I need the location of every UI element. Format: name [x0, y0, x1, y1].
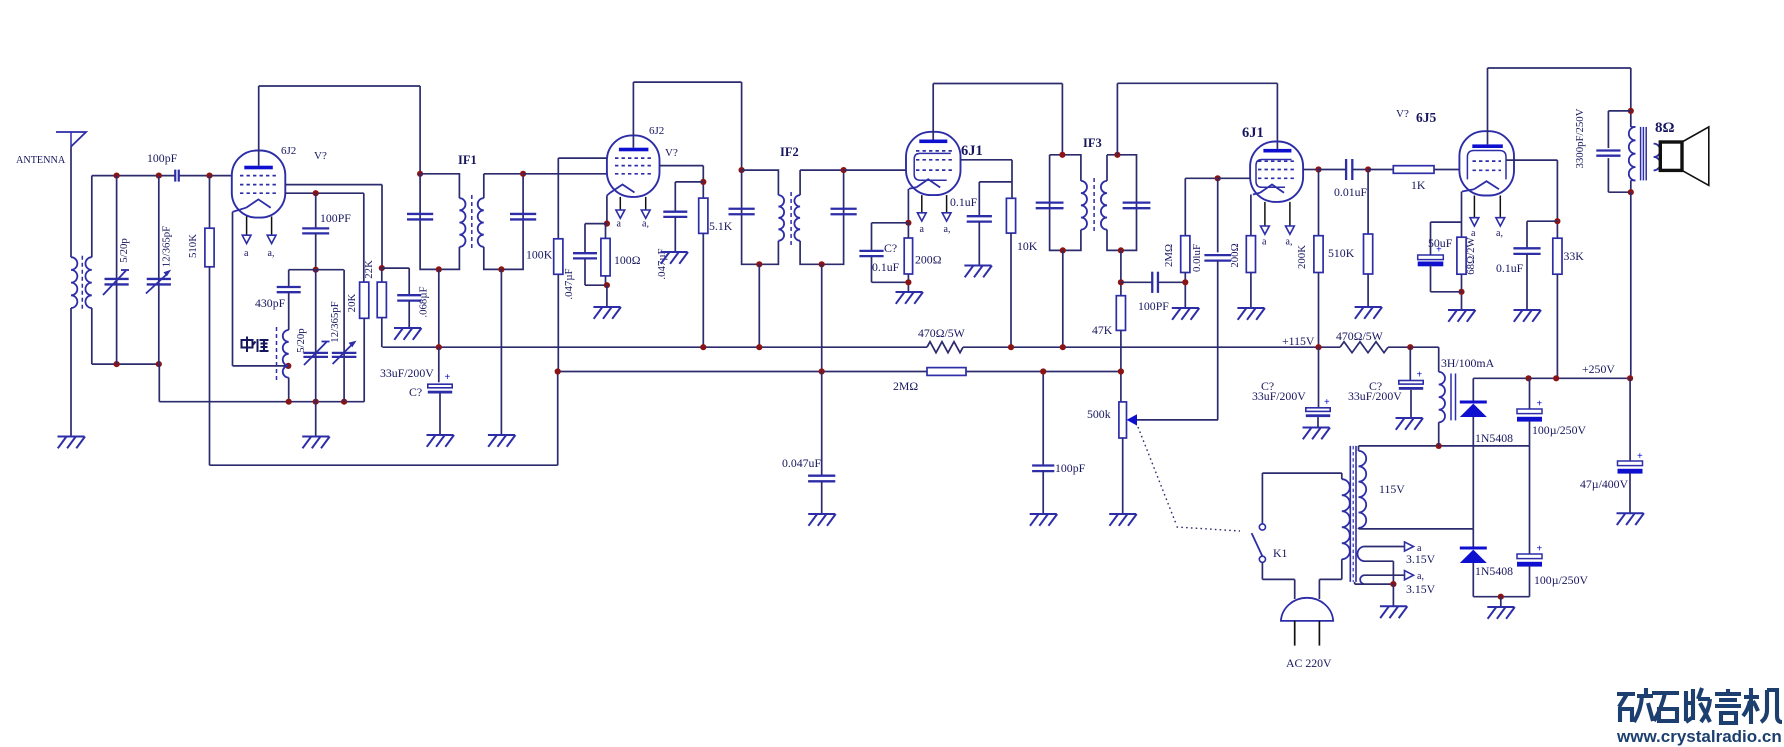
svg-text:+: +	[1537, 544, 1543, 555]
svg-text:33K: 33K	[1564, 249, 1585, 263]
node cathode/50uF	[1458, 289, 1464, 295]
svg-text:+250V: +250V	[1582, 362, 1615, 376]
svg-text:a,: a,	[1286, 237, 1293, 248]
potentiometer 500k	[1119, 402, 1127, 438]
wire heater mid	[1364, 560, 1393, 562]
wire V1 cathode lead	[232, 212, 234, 366]
wire IF1 to V2 grid	[523, 173, 607, 175]
wire IF1 secondary bottom to ground	[500, 269, 502, 435]
svg-text:2MΩ: 2MΩ	[1163, 244, 1175, 267]
node rectifier ground	[1498, 594, 1504, 600]
node 10K on bus	[1008, 344, 1014, 350]
capacitor 0.047uF AVC	[821, 372, 823, 476]
node 0.01uF/1K/510K	[1365, 166, 1371, 172]
node IF1 secondary top	[520, 171, 526, 177]
capacitor 100pF coupling	[174, 170, 176, 182]
wire pot bottom to ground	[1122, 438, 1124, 514]
svg-text:68Ω/2W: 68Ω/2W	[1465, 236, 1477, 274]
choke 3H/100mA	[1438, 347, 1440, 372]
ground (antenna)	[58, 436, 85, 438]
svg-text:500k: 500k	[1087, 407, 1111, 421]
capacitor 100PF IF filter	[1151, 272, 1153, 293]
node 100pF on AVC bus	[1040, 368, 1046, 374]
svg-text:0.1uF: 0.1uF	[872, 260, 900, 274]
IF1 secondary loop	[484, 174, 523, 270]
wire grid rail	[92, 175, 176, 177]
plug AC 220V	[1281, 598, 1333, 621]
svg-text:100pF: 100pF	[147, 151, 178, 165]
svg-text:AC 220V: AC 220V	[1286, 656, 1332, 670]
svg-text:IF1: IF1	[458, 153, 477, 167]
wire heater bottom	[1355, 583, 1394, 585]
capacitor C? 33uF/200V first	[1318, 347, 1320, 407]
node rail dots	[114, 173, 120, 179]
node bus IF3	[1060, 344, 1066, 350]
ground (100pF)	[1030, 513, 1057, 515]
node primary bottom	[1628, 189, 1634, 195]
wire V1 plate lead	[258, 86, 260, 166]
svg-text:470Ω/5W: 470Ω/5W	[918, 326, 966, 340]
wire V1 g3 to 20K	[285, 192, 364, 194]
wire to .047uF screen bypass	[675, 181, 703, 183]
svg-text:a,: a,	[268, 248, 275, 259]
transformer core (antenna coil)	[81, 256, 83, 311]
svg-text:50uF: 50uF	[1428, 236, 1453, 250]
ground (0.047uF)	[808, 513, 835, 515]
node IF1 secondary bottom	[498, 266, 504, 272]
svg-text:470Ω/5W: 470Ω/5W	[1336, 329, 1384, 343]
wire antenna tank bottom	[92, 363, 159, 365]
tube V3 cathode	[916, 179, 940, 187]
svg-text:0.1uF: 0.1uF	[950, 195, 978, 209]
resistor 33K	[1553, 238, 1562, 274]
svg-text:+: +	[1417, 370, 1423, 381]
wire to +250V	[1630, 192, 1632, 378]
resistor 100R cathode	[601, 238, 610, 276]
output transformer core	[1640, 127, 1642, 180]
node osc tank bottom dots	[286, 399, 292, 405]
wire secondary top to grid rail	[91, 176, 93, 258]
choke core	[1450, 374, 1452, 421]
svg-text:+: +	[1537, 399, 1543, 410]
variable capacitor 12/365pF	[158, 176, 160, 365]
capacitor 0.1uF screen bypass	[979, 181, 1012, 183]
wire secondary bottom	[1358, 528, 1360, 529]
wire V4 cathode lead	[1250, 195, 1252, 236]
svg-text:3.15V: 3.15V	[1406, 552, 1436, 566]
capacitor .047uF screen	[663, 211, 687, 213]
tube V1 cathode	[246, 199, 271, 207]
svg-text:5/20p: 5/20p	[295, 328, 307, 353]
variable capacitor 5/20p osc	[315, 270, 317, 402]
svg-text:V?: V?	[665, 147, 678, 159]
inductor IF3 primary	[1081, 181, 1087, 230]
capacitor C? 0.1uF cathode	[872, 222, 909, 224]
tube V5 inner box	[1467, 151, 1506, 180]
svg-text:100µ/250V: 100µ/250V	[1532, 423, 1586, 437]
capacitor 100uF/250V upper	[1529, 378, 1531, 409]
wire +250V rail	[1473, 377, 1630, 379]
svg-text:10K: 10K	[1017, 239, 1038, 253]
svg-text:C?: C?	[884, 241, 897, 255]
node 5.1K on bus	[700, 344, 706, 350]
svg-text:47K: 47K	[1092, 323, 1113, 337]
wire to ground	[606, 285, 608, 307]
label zhongzhen oscillator coil	[242, 337, 269, 353]
tube V1 heater pins	[246, 217, 248, 236]
capacitor 0.01uF interstage	[1319, 169, 1346, 171]
wire primary top	[1341, 473, 1343, 479]
svg-text:33uF/200V: 33uF/200V	[1252, 389, 1306, 403]
svg-text:200K: 200K	[1296, 245, 1308, 269]
IF2 primary loop	[742, 170, 779, 195]
ground (0.1uF V5)	[1514, 309, 1541, 311]
svg-text:6J1: 6J1	[961, 143, 983, 159]
resistor 200K	[1318, 170, 1320, 236]
wire osc tank top	[289, 269, 344, 271]
inductor output transformer primary	[1629, 127, 1636, 181]
svg-text:ANTENNA: ANTENNA	[16, 155, 66, 166]
ground (V4 cathode)	[1237, 307, 1264, 309]
resistor 22K	[381, 268, 383, 282]
mechanical link dotted	[1138, 427, 1177, 525]
node 100K bottom on AVC bus	[555, 368, 561, 374]
svg-text:5.1K: 5.1K	[709, 219, 733, 233]
oscillator coil core	[276, 327, 278, 381]
wire V5 cathode lead	[1461, 192, 1463, 238]
svg-text:430pF: 430pF	[255, 296, 286, 310]
IF1 core	[471, 195, 473, 250]
node V2 cathode	[604, 221, 610, 227]
tube V5 cathode	[1474, 181, 1499, 189]
capacitor IF3 secondary	[1123, 201, 1151, 203]
wire antenna to ground	[70, 308, 72, 437]
wire secondary top (midpoint)	[1358, 446, 1360, 451]
capacitor 3300pF/250V	[1608, 110, 1630, 112]
inductor heater winding	[1357, 547, 1364, 562]
wire heater tap a	[1364, 546, 1405, 548]
wire V1 plate supply rail	[259, 85, 420, 87]
tube V4 inner bracket	[1256, 160, 1292, 188]
node 2M bottom	[1182, 279, 1188, 285]
tube V3 heater pins	[921, 195, 923, 213]
node cathode bottom	[604, 282, 610, 288]
IF2 core	[790, 192, 792, 245]
resistor 200R V4 cathode	[1246, 236, 1255, 273]
IF2 secondary loop	[800, 170, 844, 264]
resistor 2M grid	[1184, 178, 1186, 235]
svg-text:+: +	[1324, 397, 1330, 408]
capacitor C? 33uF/200V	[438, 347, 440, 382]
capacitor IF1 primary	[407, 213, 433, 215]
svg-text:1K: 1K	[1411, 178, 1426, 192]
tube V2 cathode	[611, 185, 635, 193]
node IF2 top left	[739, 167, 745, 173]
svg-text:22K: 22K	[363, 260, 375, 279]
svg-text:100PF: 100PF	[1138, 299, 1169, 313]
node 100PF tap	[313, 190, 319, 196]
svg-text:3300pF/250V: 3300pF/250V	[1574, 108, 1586, 168]
wire V3 g2 right	[961, 159, 1013, 161]
wire IF3 primary bottom to bus	[1062, 250, 1064, 347]
wire V4 g2 right	[1303, 169, 1318, 171]
svg-text:0.1uF: 0.1uF	[1496, 261, 1524, 275]
capacitor 100PF	[315, 193, 317, 228]
svg-text:a: a	[1262, 237, 1267, 248]
svg-text:6J2: 6J2	[281, 145, 296, 157]
svg-text:IF2: IF2	[780, 145, 799, 159]
capacitor 50uF cathode bypass	[1431, 221, 1462, 223]
svg-text:1N5408: 1N5408	[1475, 431, 1513, 445]
wire V3 plate supply rail	[933, 83, 1062, 85]
inductor IF2 primary	[778, 195, 784, 241]
tube V4 grid rows	[1258, 160, 1296, 162]
tube V5 6J5	[1459, 131, 1514, 195]
inductor tuned secondary	[85, 257, 91, 308]
node IF1 primary bottom	[436, 266, 442, 272]
wire V5 plate rail	[1488, 67, 1631, 69]
ground (47uF)	[1617, 512, 1644, 514]
node 47K on AVC bus	[1118, 368, 1124, 374]
capacitor C? 33uF/200V second	[1409, 347, 1411, 380]
capacitor IF2 primary	[729, 208, 755, 210]
node IF3 primary top	[1059, 152, 1065, 158]
node osc tank top	[313, 267, 319, 273]
capacitor IF2 secondary	[831, 208, 857, 210]
tube V4 heater pins	[1264, 202, 1266, 226]
wire detector load chain	[1120, 250, 1122, 295]
ground (0.1uF)	[964, 265, 991, 267]
inductor secondary 115V	[1359, 451, 1367, 528]
wire AVC return line	[210, 464, 558, 466]
capacitor .047uF cathode	[584, 224, 586, 253]
wire doubler midpoint	[1359, 445, 1530, 447]
svg-text:2MΩ: 2MΩ	[893, 379, 918, 393]
svg-text:a,: a,	[1417, 571, 1424, 582]
ground (V3 cathode)	[896, 291, 923, 293]
ground (osc tank)	[302, 436, 329, 438]
svg-text:6J2: 6J2	[649, 125, 664, 137]
svg-text:6J1: 6J1	[1242, 125, 1264, 141]
wire osc coil bottom	[288, 378, 290, 402]
svg-text:.068µF: .068µF	[418, 286, 430, 317]
diode 1N5408 upper	[1472, 378, 1474, 402]
tube V5 anode bar	[1472, 144, 1503, 148]
inductor output secondary	[1654, 144, 1661, 171]
svg-text:a,: a,	[944, 224, 951, 235]
capacitor IF1 secondary	[510, 213, 536, 215]
resistor 5.1K	[699, 198, 708, 233]
resistor 200R cathode	[904, 238, 912, 274]
svg-text:3H/100mA: 3H/100mA	[1441, 356, 1495, 370]
resistor 2M (in AVC bus)	[927, 368, 966, 376]
wire V4 g3 left	[1218, 177, 1250, 179]
node choke tap	[1436, 443, 1442, 449]
wire tank ground	[315, 402, 317, 437]
wire bus1 B+ rail	[383, 346, 928, 348]
node 5.1K top	[700, 179, 706, 185]
tube V2 grid rows	[615, 157, 652, 159]
wire bus2 AVC line	[558, 371, 927, 373]
inductor IF1 primary	[459, 198, 465, 247]
wire primary bottom to plug	[1341, 559, 1343, 579]
node heater center tap	[1390, 581, 1396, 587]
capacitor 47uF/400V	[1629, 378, 1631, 461]
tube V1 6J2	[232, 151, 285, 218]
node IF3 primary bottom	[1060, 247, 1066, 253]
IF1 primary loop	[420, 174, 459, 198]
tube V4 6J1	[1250, 142, 1303, 202]
tube V2 6J2	[607, 135, 660, 197]
svg-text:100pF: 100pF	[1055, 461, 1086, 475]
wire .068uF to ground	[408, 301, 410, 328]
inductor IF1 secondary	[478, 198, 484, 247]
IF3 core	[1093, 178, 1095, 232]
node IF1 top left	[417, 171, 423, 177]
wire IF2 primary bottom to bus	[758, 264, 760, 347]
ground (.047uF screen)	[661, 251, 688, 253]
resistor 47K	[1116, 296, 1125, 331]
tube V3 inner bracket	[914, 153, 951, 180]
wire center tap ground	[1392, 584, 1394, 606]
node V4 screen	[1315, 166, 1321, 172]
svg-text:IF3: IF3	[1083, 136, 1102, 150]
svg-text:200Ω: 200Ω	[915, 253, 942, 267]
wire to ground	[1500, 597, 1502, 607]
svg-text:33uF/200V: 33uF/200V	[1348, 389, 1402, 403]
inductor antenna primary	[71, 257, 77, 308]
svg-text:www.crystalradio.cn: www.crystalradio.cn	[1616, 727, 1782, 746]
switch K1	[1259, 524, 1265, 530]
svg-text:.047µF: .047µF	[563, 268, 575, 299]
svg-text:K1: K1	[1273, 546, 1288, 560]
resistor 20K	[360, 282, 369, 318]
ground (.068uF)	[394, 327, 421, 329]
tube V3 anode bar	[919, 140, 947, 144]
ground (510K)	[1355, 306, 1382, 308]
node +250V dots	[1525, 375, 1531, 381]
capacitor 100uF/250V lower	[1529, 446, 1531, 554]
svg-text:33uF/200V: 33uF/200V	[380, 366, 434, 380]
node choke top	[1407, 344, 1413, 350]
antenna symbol	[56, 132, 86, 147]
diode 1N5408 lower	[1472, 529, 1474, 548]
capacitor .068uF	[397, 294, 421, 296]
svg-text:a,: a,	[1496, 228, 1503, 239]
resistor 100K	[554, 239, 563, 274]
node IF3 secondary top	[1114, 152, 1120, 158]
svg-text:20K: 20K	[346, 294, 358, 313]
inductor oscillator coil	[283, 330, 289, 378]
svg-text:5/20p: 5/20p	[118, 238, 130, 263]
ground (rectifier)	[1487, 606, 1514, 608]
svg-text:8Ω: 8Ω	[1655, 120, 1675, 136]
resistor 510K V5 grid	[1367, 170, 1369, 235]
svg-text:C?: C?	[409, 385, 422, 399]
svg-text:3.15V: 3.15V	[1406, 582, 1436, 596]
svg-text:+: +	[1637, 451, 1643, 462]
wire V5 plate lead	[1487, 68, 1489, 144]
resistor 510K grid leak	[209, 176, 211, 229]
wire V2 g1 to 100K	[558, 157, 607, 159]
svg-text:47µ/400V: 47µ/400V	[1580, 477, 1629, 491]
wire V2 cathode lead	[606, 196, 608, 224]
wire IF3 secondary top to V4 plate rail	[1116, 83, 1118, 155]
wire 2M to grid node	[1185, 177, 1217, 179]
ground (33uF second)	[1396, 417, 1423, 419]
node AVC 0.047uF	[819, 368, 825, 374]
resistor 470R/5W second (zigzag before choke)	[1340, 342, 1388, 353]
wire secondary bottom	[91, 308, 93, 364]
svg-text:12/365pF: 12/365pF	[161, 226, 173, 267]
tube V5 grid rows	[1473, 160, 1502, 162]
wire V1 g2 to 22K	[285, 184, 382, 186]
node tank bottom dots	[114, 361, 120, 367]
svg-text:a: a	[244, 248, 249, 259]
power transformer core	[1349, 446, 1351, 582]
variable capacitor 5/20p	[116, 176, 118, 365]
resistor 470R/5W (zigzag in B+ bus)	[927, 342, 963, 353]
wire pot wiper to coupling cap	[1137, 419, 1218, 421]
tube V1 grid rows	[240, 175, 278, 177]
svg-text:100PF: 100PF	[320, 211, 351, 225]
svg-text:0.047uF: 0.047uF	[782, 456, 821, 470]
wire V2 plate supply rail	[633, 81, 741, 83]
svg-text:a: a	[920, 224, 925, 235]
capacitor 0.01uF coupling vertical	[1217, 178, 1219, 252]
node screen/0.1uF	[1554, 218, 1560, 224]
ground (V2 cathode)	[593, 306, 620, 308]
svg-text:100µ/250V: 100µ/250V	[1534, 573, 1588, 587]
node 3300pF top	[1628, 108, 1634, 114]
tube V4 cathode	[1260, 185, 1284, 193]
tube V4 anode bar	[1263, 149, 1291, 153]
svg-text:6J5: 6J5	[1416, 110, 1437, 125]
svg-text:0.01uF: 0.01uF	[1334, 185, 1368, 199]
wire IF2 to V3 grid	[844, 169, 906, 171]
capacitor 430pF	[288, 270, 290, 287]
node V3 cathode	[905, 220, 911, 226]
wire IF1 primary bottom to bus	[438, 269, 440, 347]
capacitor 100pF detector	[1042, 372, 1044, 466]
IF3 secondary loop	[1107, 155, 1137, 251]
resistor 10K	[1006, 198, 1015, 233]
wire to .068uF	[382, 267, 409, 269]
wire primary bottom	[1630, 180, 1632, 192]
wire V2 plate lead	[632, 82, 634, 148]
ground (V5 cathode)	[1448, 309, 1475, 311]
wire antenna lead	[70, 147, 72, 258]
node IF3 secondary bottom	[1118, 247, 1124, 253]
svg-text:510K: 510K	[1328, 246, 1355, 260]
wire heater tap a2	[1364, 574, 1405, 576]
wire rectifier ground node	[1473, 596, 1529, 598]
svg-text:+115V: +115V	[1282, 334, 1315, 348]
svg-text:1N5408: 1N5408	[1475, 564, 1513, 578]
svg-text:115V: 115V	[1379, 482, 1405, 496]
inductor IF3 secondary	[1101, 181, 1107, 230]
speaker voice coil box	[1660, 142, 1682, 170]
svg-text:510K: 510K	[187, 234, 199, 258]
node bus IF2	[756, 344, 762, 350]
node 22K top	[379, 265, 385, 271]
node IF2 primary bottom	[756, 261, 762, 267]
resistor 68R/2W cathode	[1457, 237, 1466, 274]
node V4 grid	[1215, 175, 1221, 181]
capacitor 0.1uF V5	[1527, 220, 1557, 222]
ground (pot)	[1109, 513, 1136, 515]
wire IF2 secondary return to AVC	[821, 264, 823, 371]
